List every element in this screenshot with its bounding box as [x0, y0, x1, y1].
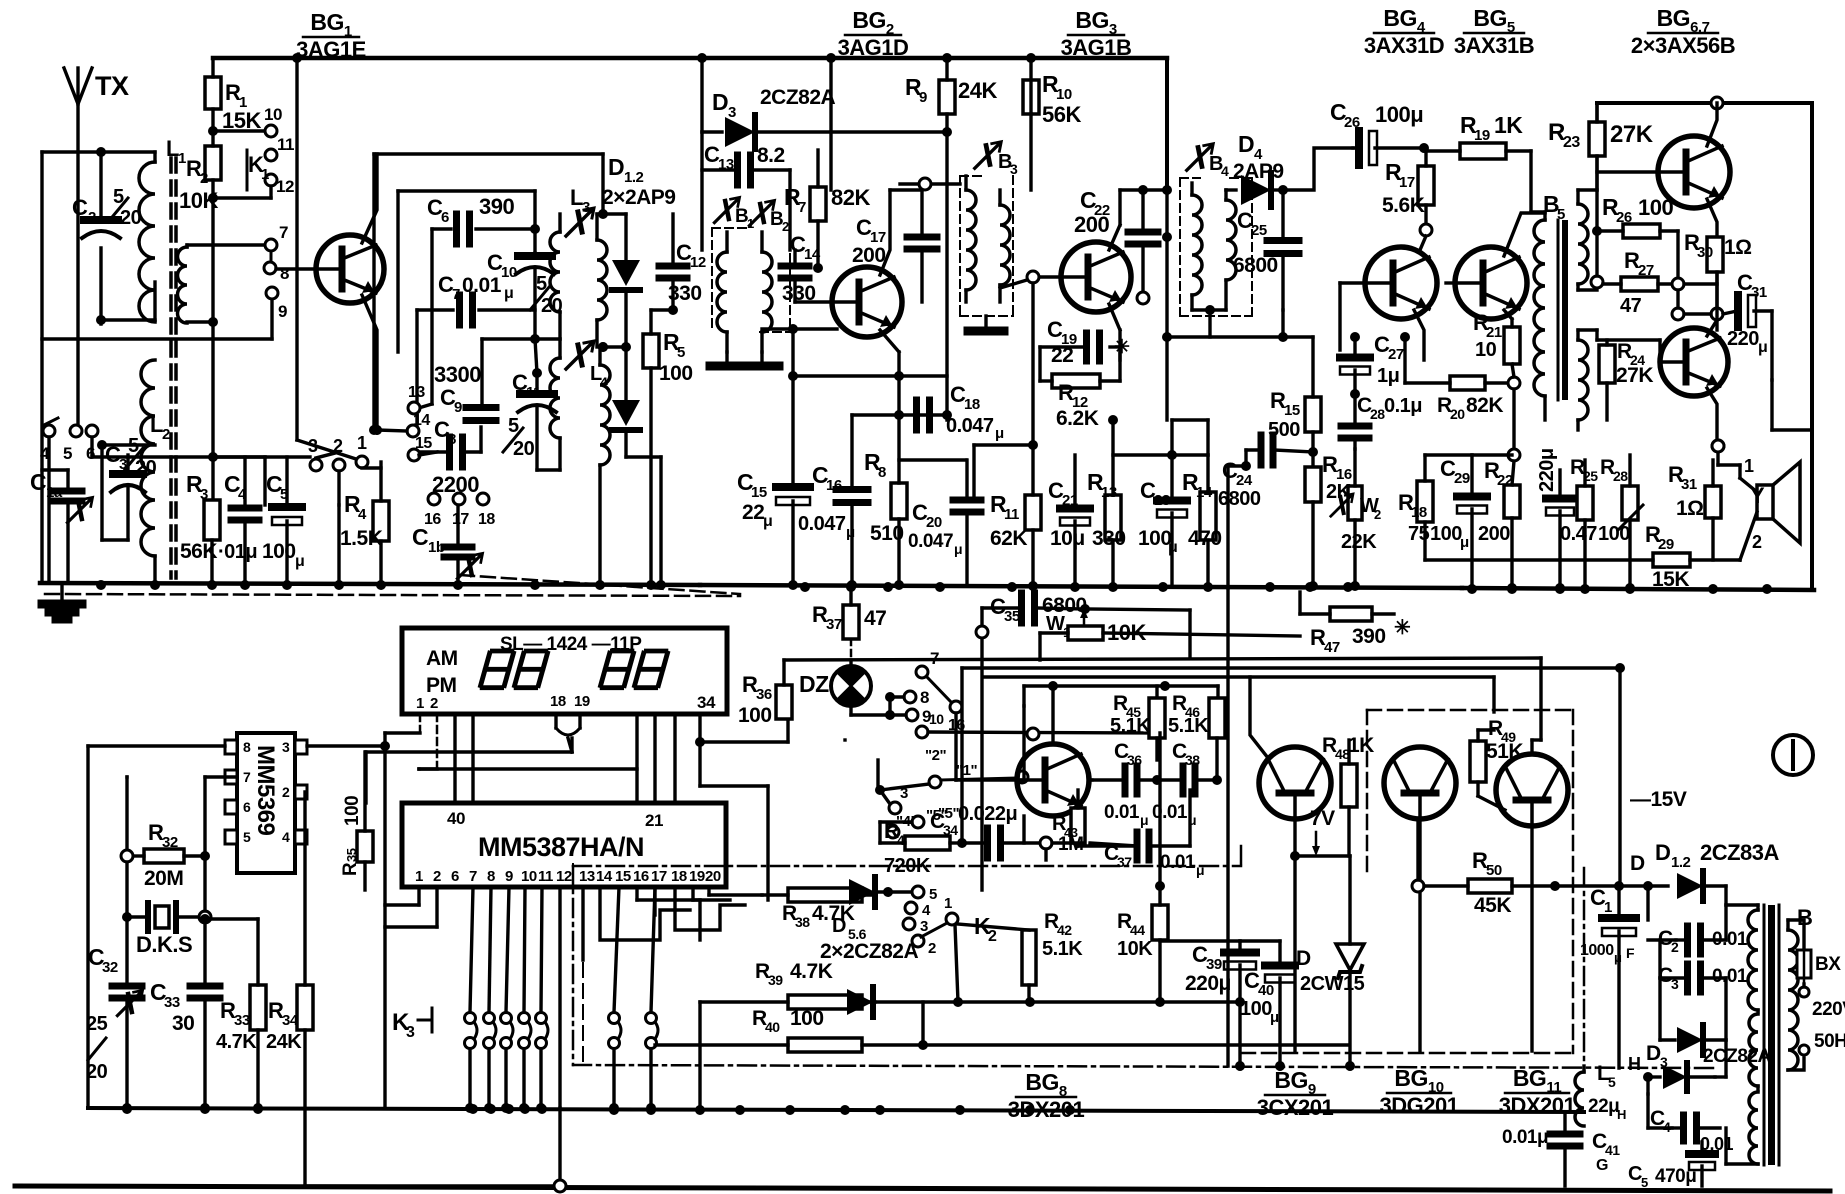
svg-text:0.022μ: 0.022μ	[958, 803, 1017, 825]
capacitor C5 psu	[1628, 1142, 1715, 1190]
wire bottom bus 1	[88, 1108, 1584, 1112]
svg-text:PM: PM	[426, 674, 457, 697]
svg-text:C: C	[412, 524, 428, 550]
svg-text:41: 41	[1605, 1142, 1620, 1158]
ground antenna	[42, 583, 82, 619]
svg-text:4: 4	[922, 902, 931, 919]
svg-text:33: 33	[164, 994, 180, 1011]
svg-text:16: 16	[633, 868, 649, 885]
resistor R41	[880, 807, 962, 877]
transformer B sec bot	[1715, 1040, 1758, 1164]
resistor R28	[1598, 455, 1643, 593]
junction dots ground bus	[96, 580, 1772, 594]
svg-text:1.2: 1.2	[624, 169, 644, 186]
label pins 16 17 18	[424, 493, 495, 528]
svg-text:μ: μ	[504, 285, 513, 302]
resistor R44	[1117, 905, 1240, 1002]
capacitor C1b variable	[412, 505, 740, 594]
resistor R15	[1268, 337, 1321, 467]
wire BG1 collector	[362, 154, 377, 243]
capacitor C2 psu	[1648, 905, 1748, 955]
svg-text:5.1K: 5.1K	[1042, 938, 1083, 960]
wire bg11 top	[1478, 730, 1541, 754]
svg-text:17: 17	[1399, 174, 1415, 191]
svg-text:330: 330	[668, 282, 702, 305]
capacitor C19	[1040, 317, 1130, 381]
label BG11	[1499, 1065, 1576, 1118]
transistor BG3	[1000, 242, 1131, 312]
svg-text:0.01: 0.01	[1160, 852, 1196, 873]
svg-text:"5": "5"	[926, 807, 947, 824]
resistor R34	[266, 792, 552, 1186]
svg-text:8.2: 8.2	[757, 144, 785, 167]
IC MM5387HA/N	[402, 803, 726, 887]
switch 3 2 1	[308, 433, 368, 583]
wire antenna top	[42, 147, 155, 583]
wire c16 top	[852, 410, 947, 420]
svg-text:2CZ82A: 2CZ82A	[760, 86, 836, 109]
capacitor C41	[1502, 1112, 1620, 1186]
wire pin17 route	[653, 887, 656, 915]
coil T3 right	[1226, 190, 1236, 310]
resistor R45	[1110, 692, 1165, 760]
wire pin19 route	[693, 887, 730, 900]
svg-text:390: 390	[479, 194, 514, 219]
svg-text:17: 17	[452, 511, 469, 528]
label -15V	[1630, 788, 1687, 811]
resistor R33	[200, 914, 266, 1113]
svg-text:28: 28	[1370, 406, 1385, 422]
resistor R21	[1473, 310, 1520, 377]
svg-text:2: 2	[282, 784, 290, 800]
svg-text:0.01: 0.01	[1712, 929, 1748, 950]
svg-text:37: 37	[826, 616, 842, 633]
svg-text:6800: 6800	[1218, 488, 1261, 510]
svg-text:2: 2	[1752, 532, 1762, 552]
switch K3 label	[392, 1008, 432, 1041]
svg-text:40: 40	[1258, 982, 1274, 999]
potentiometer W1	[1040, 609, 1300, 660]
svg-text:1: 1	[1604, 899, 1612, 916]
wire bg7 base	[1597, 330, 1660, 340]
svg-text:0.01μ: 0.01μ	[1502, 1127, 1548, 1148]
svg-text:12: 12	[556, 868, 572, 885]
coil T2 right	[1000, 190, 1010, 302]
label 7V	[1310, 807, 1335, 856]
svg-text:0.047: 0.047	[908, 531, 953, 552]
svg-text:—15V: —15V	[1630, 788, 1687, 811]
svg-text:0.047: 0.047	[946, 415, 994, 437]
label BG6.7	[1631, 5, 1735, 58]
svg-text:D: D	[832, 915, 846, 937]
svg-text:100: 100	[738, 704, 772, 727]
wire c34 r43	[1052, 838, 1083, 848]
trimmer L3	[566, 185, 594, 236]
coil L3 left	[535, 214, 560, 339]
svg-text:0.01: 0.01	[1152, 802, 1188, 823]
svg-text:8: 8	[243, 739, 251, 755]
svg-text:μ: μ	[1168, 539, 1177, 556]
svg-text:2: 2	[988, 928, 997, 945]
svg-text:220V: 220V	[1812, 999, 1845, 1020]
wire 5369 out	[307, 741, 390, 751]
svg-text:20: 20	[86, 1061, 108, 1083]
resistor R8	[864, 352, 966, 590]
svg-text:1: 1	[944, 895, 952, 912]
wire spk top	[1712, 440, 1740, 465]
wire right col	[1772, 380, 1812, 430]
svg-text:27K: 27K	[1610, 121, 1654, 148]
svg-text:7V: 7V	[1310, 807, 1335, 830]
wire collector column	[292, 53, 356, 459]
label 3300	[434, 362, 481, 387]
resistor R27	[1603, 248, 1717, 317]
svg-text:7: 7	[243, 769, 251, 785]
resistor R3	[180, 471, 220, 583]
svg-text:3AX31B: 3AX31B	[1454, 33, 1534, 58]
transistor BG5	[1446, 213, 1545, 319]
label BG10	[1380, 1065, 1459, 1118]
svg-text:100: 100	[262, 540, 296, 563]
svg-text:8: 8	[280, 264, 289, 283]
svg-text:37: 37	[1117, 854, 1132, 870]
svg-text:14: 14	[596, 868, 613, 885]
display label	[500, 634, 642, 655]
svg-text:1: 1	[357, 433, 367, 453]
potentiometer W2	[1331, 449, 1381, 591]
svg-text:25: 25	[86, 1013, 108, 1035]
svg-text:D: D	[712, 89, 728, 115]
capacitor C25	[1233, 190, 1299, 310]
svg-text:390: 390	[1352, 625, 1386, 648]
diode D1	[603, 214, 640, 352]
svg-text:1: 1	[178, 150, 186, 167]
svg-text:10: 10	[1475, 339, 1497, 361]
capacitor C15	[737, 376, 810, 590]
svg-text:56K: 56K	[1042, 102, 1081, 127]
capacitor C1a variable	[30, 469, 93, 583]
terminal 220V	[1799, 984, 1845, 1055]
svg-text:3AG1D: 3AG1D	[838, 35, 909, 60]
svg-text:39: 39	[1206, 956, 1222, 973]
display digits	[481, 651, 668, 688]
capacitor C20	[908, 460, 981, 585]
capacitor C11 variable	[503, 339, 556, 470]
wire left drops	[383, 733, 386, 1108]
svg-text:8: 8	[920, 688, 929, 707]
transformer L1 primary	[139, 136, 186, 322]
svg-text:D.K.S: D.K.S	[136, 932, 192, 957]
ground T1a	[710, 352, 744, 366]
transistor BG10	[1384, 747, 1456, 1051]
capacitor C12	[651, 214, 706, 315]
transformer L2 secondary	[141, 360, 170, 583]
wire if3 bottom	[1162, 305, 1288, 420]
resistor R42	[957, 910, 1083, 1002]
capacitor C31	[1723, 270, 1772, 380]
resistor R14	[1182, 455, 1222, 586]
resistor R13	[1087, 415, 1126, 586]
capacitor C35	[982, 593, 1190, 658]
svg-text:2: 2	[162, 426, 170, 443]
switch K1 lower	[264, 223, 289, 321]
svg-text:29: 29	[1658, 536, 1674, 553]
switch K contacts B	[916, 711, 1165, 780]
capacitor C37	[1078, 790, 1204, 878]
wire alarm bottoms	[1024, 816, 1046, 860]
svg-text:2: 2	[1374, 507, 1381, 522]
wire disp 34	[695, 714, 788, 900]
svg-text:100: 100	[342, 796, 363, 826]
label pin14	[372, 412, 430, 437]
wire pins under	[385, 887, 437, 927]
svg-text:5: 5	[280, 486, 288, 503]
svg-text:5: 5	[1641, 1175, 1648, 1190]
svg-text:"1": "1"	[956, 762, 977, 779]
wire bottom bus 2	[15, 1186, 1830, 1191]
svg-text:2×2CZ82A: 2×2CZ82A	[820, 940, 918, 963]
junction dots bottom bus	[122, 1104, 1075, 1115]
resistor R9	[905, 53, 997, 420]
resistor R10	[1023, 53, 1081, 190]
trimmer B1	[714, 197, 754, 231]
capacitor C4	[218, 457, 259, 583]
wire pin10	[213, 105, 282, 137]
wire bg8 base	[1089, 778, 1092, 781]
capacitor C38	[1152, 740, 1222, 828]
svg-text:2CZ83A: 2CZ83A	[1700, 840, 1780, 865]
svg-text:3DX201: 3DX201	[1499, 1093, 1576, 1118]
svg-text:D: D	[1630, 852, 1645, 875]
capacitor C26	[1330, 99, 1429, 165]
capacitor C40	[1240, 941, 1295, 1069]
transformer B sec mid	[1749, 1014, 1758, 1090]
svg-text:μ: μ	[1140, 812, 1148, 828]
capacitor C22	[1074, 185, 1158, 304]
transformer core	[171, 158, 176, 578]
wire r13 c23 top	[1113, 420, 1208, 455]
svg-text:10K: 10K	[179, 188, 218, 213]
svg-text:D: D	[608, 154, 624, 180]
svg-text:1: 1	[415, 868, 423, 885]
svg-text:μ: μ	[846, 524, 855, 541]
wire r50 right	[1555, 668, 1668, 920]
IC pin13 dash	[572, 864, 574, 887]
diode D4	[1226, 131, 1288, 207]
transistor BG8	[1017, 706, 1089, 816]
svg-text:2×3AX56B: 2×3AX56B	[1631, 33, 1735, 58]
label node D	[1630, 852, 1645, 875]
label BG4	[1364, 5, 1444, 58]
transistor BG4	[1365, 247, 1437, 319]
wire w1 col	[976, 608, 988, 890]
resistor R26	[1591, 194, 1678, 288]
svg-text:32: 32	[102, 959, 118, 976]
svg-text:220μ: 220μ	[1536, 448, 1558, 492]
wire BG1 emitter	[362, 295, 382, 435]
wire L1 bottom	[96, 315, 155, 325]
trimmer B2	[749, 200, 789, 234]
svg-text:4: 4	[1221, 163, 1229, 179]
svg-text:3AG1B: 3AG1B	[1061, 35, 1132, 60]
svg-text:50: 50	[1486, 862, 1502, 879]
svg-text:4.7K: 4.7K	[216, 1031, 257, 1053]
svg-text:12: 12	[276, 177, 294, 196]
svg-text:D: D	[1655, 840, 1670, 865]
wire long h2	[962, 663, 1625, 673]
wire bg5 emitter	[1504, 310, 1512, 319]
capacitor C18	[917, 382, 1005, 442]
coil L4 right	[600, 347, 610, 584]
svg-text:1: 1	[261, 166, 269, 183]
svg-text:7: 7	[452, 286, 460, 303]
capacitor C29	[1430, 455, 1487, 588]
svg-text:μ: μ	[1758, 339, 1767, 356]
resistor R29	[1425, 522, 1740, 591]
switch K1 upper	[213, 135, 294, 198]
B5 right top	[1578, 103, 1597, 290]
ground T1b	[745, 352, 779, 366]
wire C10 bottom	[482, 339, 535, 405]
label BG3	[1061, 7, 1132, 60]
svg-text:3AG1E: 3AG1E	[296, 37, 366, 62]
svg-text:100: 100	[1138, 527, 1172, 550]
svg-text:100: 100	[1638, 195, 1673, 220]
svg-text:1: 1	[416, 695, 424, 712]
svg-text:2CZ82A: 2CZ82A	[1703, 1046, 1772, 1067]
svg-text:10μ: 10μ	[1050, 527, 1085, 550]
svg-text:7: 7	[469, 868, 477, 885]
speaker Y	[1740, 456, 1800, 560]
svg-text:3: 3	[308, 436, 318, 456]
svg-text:6.2K: 6.2K	[1056, 407, 1099, 430]
transistor BG6	[1597, 103, 1730, 310]
svg-text:35: 35	[344, 848, 359, 862]
svg-text:200: 200	[1478, 523, 1510, 545]
resistor R16	[1305, 452, 1352, 591]
transformer B core	[1764, 905, 1779, 1165]
svg-text:47: 47	[864, 607, 886, 630]
svg-text:22μ: 22μ	[1588, 1096, 1619, 1117]
svg-text:15K: 15K	[1652, 568, 1689, 591]
transistor BG7	[1660, 320, 1728, 452]
IC pin numbers	[415, 868, 721, 885]
svg-text:20: 20	[705, 868, 721, 885]
label BG9	[1257, 1067, 1334, 1120]
svg-text:5: 5	[929, 886, 937, 903]
svg-text:2×2AP9: 2×2AP9	[602, 186, 675, 209]
svg-text:36: 36	[756, 686, 772, 703]
svg-text:31: 31	[1681, 476, 1697, 493]
wire right v1	[1494, 658, 1541, 740]
wire chassis dash	[45, 594, 740, 596]
label pin 5	[63, 444, 72, 463]
wire r14 col	[1172, 420, 1208, 455]
svg-text:2CW15: 2CW15	[1300, 973, 1365, 995]
wire 5369 left top	[88, 746, 225, 1108]
svg-text:3: 3	[900, 785, 908, 802]
resistor R39	[700, 960, 875, 1009]
label pin15	[408, 435, 437, 461]
svg-text:F: F	[1626, 945, 1635, 961]
capacitor C9	[440, 385, 496, 452]
svg-text:11: 11	[277, 135, 294, 154]
svg-text:H: H	[1628, 1054, 1641, 1074]
svg-text:9: 9	[278, 302, 287, 321]
svg-text:15: 15	[1284, 402, 1300, 419]
capacitor C1 psu	[1580, 885, 1636, 965]
wire mid link	[212, 455, 310, 458]
svg-text:0.47: 0.47	[1560, 523, 1597, 545]
svg-text:H: H	[1617, 1107, 1626, 1122]
resistor R46	[1168, 692, 1225, 775]
svg-text:4: 4	[600, 374, 608, 390]
resistor R43	[1052, 790, 1085, 855]
switch K contacts C	[875, 747, 1028, 838]
resistor R30	[1684, 230, 1752, 310]
svg-text:14: 14	[804, 246, 821, 263]
svg-text:30: 30	[1697, 244, 1713, 261]
svg-text:19: 19	[689, 868, 705, 885]
B5 core	[1558, 220, 1568, 400]
capacitor C16	[798, 415, 868, 590]
svg-text:28: 28	[1613, 468, 1628, 484]
resistor R23	[1548, 103, 1654, 236]
svg-text:44: 44	[1130, 922, 1145, 938]
resistor R35	[340, 752, 373, 890]
svg-text:8: 8	[487, 868, 495, 885]
wire d3 col	[697, 53, 707, 132]
B5 right bottom	[1578, 330, 1597, 430]
svg-text:0.1μ: 0.1μ	[1384, 395, 1422, 417]
capacitor C3 psu	[1658, 940, 1748, 992]
wire mid node	[1672, 290, 1723, 330]
svg-text:5: 5	[243, 829, 251, 845]
svg-text:11: 11	[538, 868, 553, 885]
wire pin16 route	[637, 887, 700, 940]
capacitor C30 220u	[1536, 448, 1574, 593]
svg-text:18: 18	[478, 511, 495, 528]
transformer B sec top	[1726, 905, 1758, 1012]
svg-text:B: B	[1797, 905, 1812, 930]
zener D 2CW15	[1296, 944, 1365, 1069]
wire diode join	[598, 342, 666, 590]
svg-text:MM5369: MM5369	[252, 745, 279, 836]
svg-text:9: 9	[919, 89, 927, 106]
svg-text:10: 10	[1056, 86, 1072, 103]
svg-text:2: 2	[88, 209, 96, 226]
svg-text:2: 2	[430, 695, 438, 712]
dash-dot chassis mid	[573, 846, 1717, 1068]
capacitor C5	[262, 457, 304, 583]
wire BG3 collector	[1109, 185, 1172, 250]
svg-text:100: 100	[1240, 998, 1272, 1020]
svg-text:3AX31D: 3AX31D	[1364, 33, 1444, 58]
svg-text:MM5387HA/N: MM5387HA/N	[478, 832, 644, 862]
svg-text:30: 30	[172, 1012, 194, 1035]
svg-text:40: 40	[765, 1019, 780, 1035]
svg-text:AM: AM	[426, 647, 458, 670]
capacitor C23	[1138, 450, 1187, 586]
resistor R5	[643, 310, 693, 584]
svg-text:20M: 20M	[144, 867, 183, 890]
svg-text:35: 35	[1004, 608, 1020, 625]
svg-text:18: 18	[550, 693, 566, 710]
wire 7v node	[1290, 807, 1350, 944]
svg-text:22: 22	[742, 501, 764, 524]
coil L3 right	[597, 214, 608, 352]
ground T2	[968, 316, 1004, 331]
